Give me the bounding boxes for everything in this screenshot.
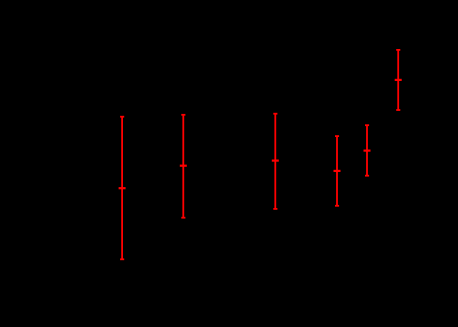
errorbar 3 bbox=[272, 114, 279, 209]
errorbar 2 bbox=[180, 115, 187, 218]
errorbar 6 bbox=[395, 50, 402, 110]
errorbar 5 bbox=[364, 125, 371, 176]
errorbar 1 bbox=[119, 117, 126, 260]
errorbar 4 bbox=[334, 136, 341, 206]
